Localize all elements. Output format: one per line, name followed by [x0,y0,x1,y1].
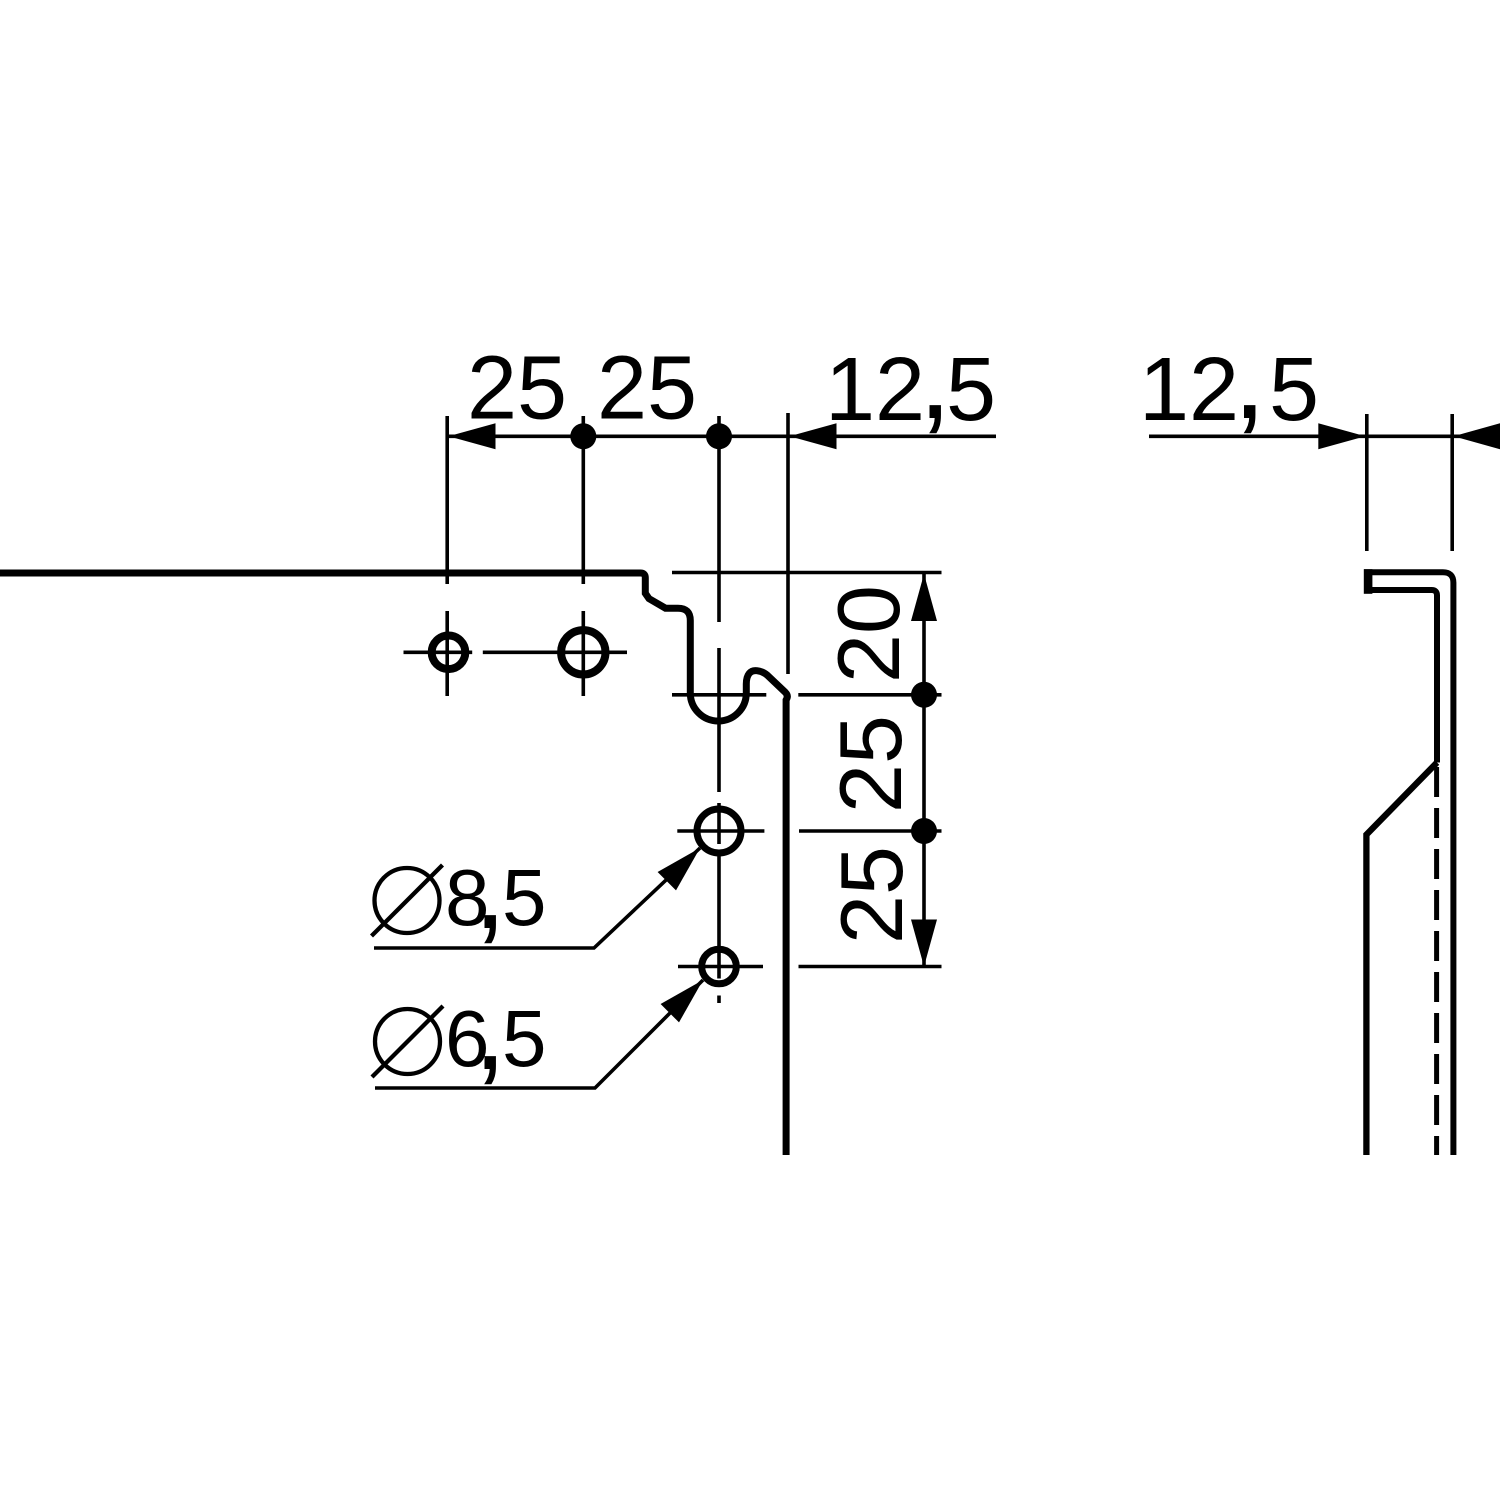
extension line y=694.8 [798,693,941,697]
origin dot at x=719 [706,423,732,449]
centerline x=583 upper [581,416,585,584]
svg-text:25: 25 [467,339,567,439]
extension line y=966.5 [799,965,942,969]
vertical dimension line 20/25/25 [922,574,926,967]
side view outer profile [1364,572,1453,1155]
svg-text:5: 5 [502,853,547,942]
svg-text:25: 25 [822,846,921,944]
leader arrowhead to H3 [658,848,700,890]
extension line y=831 [799,829,942,833]
extension line x=788 [786,413,790,674]
side view sheet end cap [1364,569,1373,594]
centerline x=583 through hole H2 [581,611,585,696]
horizontal centerline through H4 [678,965,763,969]
side view inner profile [1368,590,1437,763]
arrowhead up [911,574,937,621]
svg-text:5: 5 [502,994,547,1083]
plate outline (front view) [0,573,787,1155]
hole H2 Ø8,5 [561,630,605,674]
hole H4 Ø6,5 on vertical centerline [702,949,737,984]
svg-text:5: 5 [946,340,996,440]
centerline x=719 through U-notch [717,648,721,792]
arrowhead left at x=447 [449,423,496,449]
origin dot y=831 [911,818,937,844]
arrowhead pointing right [1318,423,1365,449]
side view: dimension 12,5 [1149,434,1500,438]
diameter symbol Ø8,5 [375,868,440,933]
centerline x=447 through hole H1 [445,611,449,696]
extension line top y=572.5 [672,571,942,575]
horizontal centerline through H2 [483,650,627,654]
origin dot at x=583 [570,423,596,449]
svg-text:,: , [1233,310,1266,444]
extension line x=1366.8 [1365,414,1369,551]
horizontal dimension line 25/25/12,5 [448,434,996,438]
leader line for Ø6,5 [375,980,703,1088]
svg-text:5: 5 [1269,340,1319,440]
horizontal centerline through H3 [677,829,764,833]
arrowhead pointing left [1454,423,1500,449]
side view hidden dashed line [1434,767,1439,1155]
leader arrowhead to H4 [661,980,703,1022]
svg-text:25: 25 [821,715,920,813]
svg-text:12: 12 [1139,340,1239,440]
horizontal centerline U-notch center [672,693,766,697]
centerline x=447 upper [445,416,449,584]
centerline x=719 upper [717,416,721,622]
horizontal centerline through H1 [404,650,473,654]
origin dot y=695 [911,682,937,708]
leader line for Ø8,5 [374,848,700,948]
hole H1 Ø6,5 left [432,636,466,670]
diameter symbol Ø6,5 [375,1009,440,1074]
svg-text:20: 20 [819,585,918,683]
hole H3 Ø8,5 on vertical centerline [697,809,741,853]
centerline x=719 through hole H3 [717,803,721,844]
svg-text:25: 25 [597,339,697,439]
centerline x=719 through hole H4 [717,851,721,979]
extension line x=1452.2 [1450,414,1454,551]
centerline x=719 end dash [717,996,721,1004]
arrowhead at x=788 pointing left [790,423,837,449]
side view bend diagonal and lower left edge [1366,763,1437,1156]
arrowhead down [911,920,937,967]
svg-text:12: 12 [825,340,925,440]
